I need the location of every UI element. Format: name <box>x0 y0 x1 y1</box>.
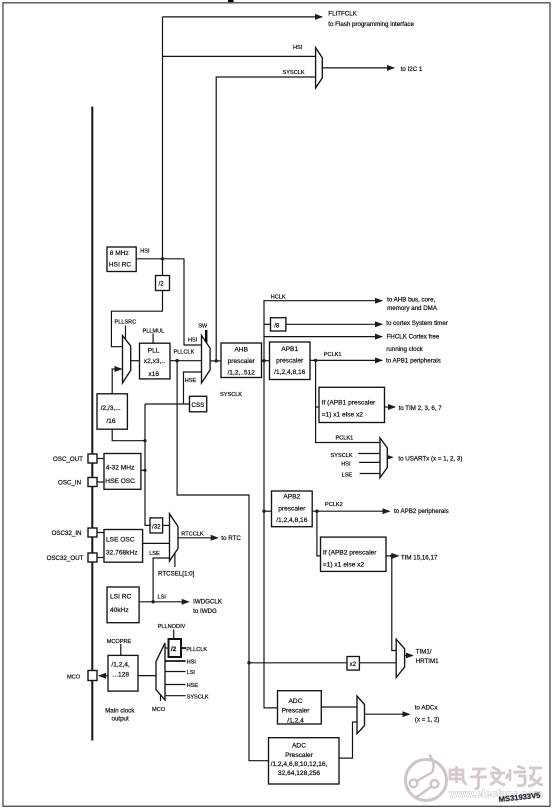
wire PLLCLK to SW mux <box>170 360 202 362</box>
mux MCO (mirrored) <box>156 643 165 700</box>
svg-text:APB2: APB2 <box>283 494 300 501</box>
svg-text:HSI RC: HSI RC <box>109 262 132 269</box>
svg-text:SYSCLK: SYSCLK <box>283 70 305 76</box>
prescaler ADC /1,2,4 box <box>278 691 322 724</box>
wire OSC_OUT pin to HSE OSC <box>97 458 104 460</box>
divider PREDIV /2,/3.../16 box <box>97 394 127 429</box>
svg-text:/16: /16 <box>106 418 115 425</box>
svg-text:8 MHz: 8 MHz <box>110 250 129 257</box>
multiplier x2 box <box>347 657 359 671</box>
svg-text:to I2C 1: to I2C 1 <box>401 66 423 73</box>
wire HCLK line <box>264 301 382 361</box>
logic If-APB2 x1/x2 box <box>321 537 387 571</box>
wire HSI to I2C mux <box>163 55 316 57</box>
svg-text:=1) x1 else x2: =1) x1 else x2 <box>323 562 365 569</box>
wire OSC_IN pin to HSE OSC <box>97 481 104 483</box>
wire /2 to MCO mux <box>165 647 169 649</box>
prescaler AHB box <box>221 343 262 378</box>
divider /32 box <box>150 518 163 533</box>
oscillator HSE OSC box <box>104 454 141 490</box>
svg-text:prescaler: prescaler <box>276 358 304 365</box>
svg-text:HSI: HSI <box>140 249 150 255</box>
wire I2C mux output to I2C1 <box>322 67 394 69</box>
wire AHB prescaler output <box>262 360 270 362</box>
wire MCO divider arrow to MCO pin <box>99 675 108 677</box>
wire OSC32_IN pin to LSE OSC <box>97 532 104 534</box>
node PCLK2 junction <box>315 510 318 513</box>
divider MCO /1,2,4...128 box <box>108 655 138 691</box>
wire RTCSEL select <box>174 551 176 567</box>
oscillator LSE OSC box <box>104 530 143 563</box>
svg-text:to USARTx (x = 1, 2, 3): to USARTx (x = 1, 2, 3) <box>398 456 462 463</box>
svg-text:Main clock: Main clock <box>105 707 135 714</box>
node LSI junction <box>151 600 154 603</box>
svg-text:PLLCLK: PLLCLK <box>174 349 195 355</box>
wire If-APB2 output to TIM15 <box>386 555 399 557</box>
divider /2 HSI box <box>156 276 170 291</box>
wire HSI RC output <box>136 259 201 345</box>
svg-text:to TIM 2, 3, 6, 7: to TIM 2, 3, 6, 7 <box>399 405 443 412</box>
node TIM15 branch junction <box>390 554 393 557</box>
wire HSE vertical <box>145 404 150 525</box>
svg-text:LSI: LSI <box>187 670 196 676</box>
wire HSI stub USART mux <box>359 461 380 463</box>
wire HCLK down bus <box>264 361 278 708</box>
wire HSE to PREDIV <box>112 429 145 441</box>
node APB2 tap junction <box>262 510 265 513</box>
wire TIM1 mux output <box>405 655 413 657</box>
mux I2C (HSI/SYSCLK) <box>316 48 323 88</box>
oscillator LSI RC box <box>107 587 139 623</box>
wire /32 to RTC mux <box>163 524 170 526</box>
top cropped text mark <box>228 0 234 2</box>
svg-text:FLITFCLK: FLITFCLK <box>328 10 357 17</box>
svg-text:SYSCLK: SYSCLK <box>220 392 242 398</box>
svg-text:HSI: HSI <box>341 462 351 468</box>
svg-text:HSI: HSI <box>293 45 303 51</box>
svg-text:to AHB bus, core,: to AHB bus, core, <box>387 296 435 303</box>
svg-text:HSE: HSE <box>187 683 199 689</box>
wire HSE to CSS <box>145 403 190 405</box>
svg-text:to cortex System timer: to cortex System timer <box>386 320 448 327</box>
oscillator HSI RC box <box>107 247 136 272</box>
node HSE-OSC junction <box>143 469 146 472</box>
mux PLLSRC <box>123 336 131 384</box>
wire ADC big prescaler output <box>338 722 357 758</box>
svg-text:TIM1/: TIM1/ <box>416 649 432 656</box>
wire /2 to PLLSRC mux <box>111 291 162 347</box>
wire HCLK to /8 <box>264 323 271 325</box>
svg-text:prescaler: prescaler <box>278 505 306 512</box>
wire HCLK to APB2 <box>264 510 272 512</box>
wire x2 to TIM1 mux <box>360 662 397 664</box>
divider /2 PLLNODIV box <box>169 639 182 657</box>
wire SW mux output SYSCLK <box>210 360 221 362</box>
wire HSI to /2 divider <box>162 259 164 276</box>
svg-text:/1,2,4,8,16: /1,2,4,8,16 <box>276 517 307 524</box>
svg-text:32,64,128,256: 32,64,128,256 <box>278 770 321 777</box>
wire main left bus <box>91 107 93 741</box>
wire PCLK1 down <box>316 360 380 442</box>
wire LSE stub USART mux <box>360 473 380 475</box>
pin OSC32_IN <box>88 528 97 537</box>
wire MCOPRE select <box>120 644 122 656</box>
wire SYSCLK stub MCO mux <box>165 695 186 697</box>
svg-text:/2,/3,...: /2,/3,... <box>101 405 121 412</box>
svg-text:/32: /32 <box>152 524 161 531</box>
watermark chinese characters (approximated strokes) <box>450 766 543 789</box>
svg-text:HSE: HSE <box>185 378 197 384</box>
svg-text:to APB1 peripherals: to APB1 peripherals <box>386 358 441 365</box>
svg-text:SYSCLK: SYSCLK <box>187 694 209 700</box>
wire PLLNODIV select <box>173 629 175 639</box>
wire LSI stub MCO mux <box>165 671 186 673</box>
svg-text:/8: /8 <box>274 322 280 329</box>
node SYSCLK junction <box>215 359 218 362</box>
mux SW system clock <box>202 335 211 383</box>
svg-text:RTCSEL[1:0]: RTCSEL[1:0] <box>158 570 195 577</box>
svg-text:HSI: HSI <box>188 337 198 343</box>
node HSI junction <box>161 257 164 260</box>
svg-text:x16: x16 <box>148 371 159 378</box>
svg-text:/1,2,4,8,16: /1,2,4,8,16 <box>274 369 305 376</box>
svg-text:PLL: PLL <box>148 347 160 354</box>
wire PCLK1 to If-APB1 box <box>316 406 319 408</box>
svg-text:MCO: MCO <box>152 707 166 713</box>
svg-text:HSE OSC: HSE OSC <box>105 478 135 485</box>
svg-text:4-32 MHz: 4-32 MHz <box>106 464 135 471</box>
wire HSE stub MCO mux <box>165 684 186 686</box>
svg-text:PLLMUL: PLLMUL <box>143 328 165 334</box>
wire SYSCLK stub USART mux <box>358 453 380 455</box>
node HCLK junction <box>262 359 265 362</box>
wire HSI vertical bus <box>162 17 164 259</box>
svg-text:=1) x1 else x2: =1) x1 else x2 <box>322 412 364 419</box>
svg-text:LSE OSC: LSE OSC <box>106 536 135 543</box>
svg-text:ADC: ADC <box>289 698 303 705</box>
pin OSC_OUT <box>88 454 97 463</box>
svg-text:/2: /2 <box>171 646 177 653</box>
svg-text:to IWDG: to IWDG <box>193 608 217 615</box>
svg-text:Prescaler: Prescaler <box>282 708 311 715</box>
svg-text:FHCLK Cortex free: FHCLK Cortex free <box>387 334 440 341</box>
svg-text:OSC_IN: OSC_IN <box>58 480 81 487</box>
svg-text:Prescaler: Prescaler <box>285 752 314 759</box>
svg-text:PLLCLK: PLLCLK <box>186 647 207 653</box>
wire SYSCLK vertical bus to I2C mux <box>216 77 315 361</box>
prescaler ADC big box <box>269 738 340 784</box>
svg-text:OSC32_OUT: OSC32_OUT <box>47 555 84 562</box>
wire SW select bar <box>205 330 207 343</box>
wire PLLSRC select <box>125 326 127 340</box>
mux ADC clock <box>357 696 365 734</box>
svg-text:HRTIM1: HRTIM1 <box>416 658 439 665</box>
wire HSE OSC output <box>141 469 145 471</box>
wire USART mux output <box>387 456 392 458</box>
svg-text:LSI: LSI <box>158 595 167 601</box>
wire OSC32_OUT pin to LSE OSC <box>97 557 104 559</box>
svg-text:CSS: CSS <box>192 402 205 409</box>
svg-text:PLLSRC: PLLSRC <box>115 320 137 326</box>
node HSE-PREDIV junction <box>143 439 146 442</box>
node PLLCLK junction <box>175 359 178 362</box>
css CSS box <box>190 396 207 412</box>
mux TIM1/HRTIM1 <box>396 639 404 677</box>
wire PLLMUL select <box>152 333 154 343</box>
svg-text:x2,x3,..: x2,x3,.. <box>144 358 165 365</box>
wire PLLCLK down bus <box>177 361 268 761</box>
svg-text:AHB: AHB <box>234 346 248 353</box>
wire PCLK2 down <box>317 511 321 556</box>
svg-text:/2: /2 <box>159 281 165 288</box>
svg-text:OSC32_IN: OSC32_IN <box>52 530 82 537</box>
svg-text:to RTC: to RTC <box>221 535 241 542</box>
svg-text:LSE: LSE <box>149 551 160 557</box>
svg-text:/1,2,4,: /1,2,4, <box>111 662 129 669</box>
svg-text:PLLNODIV: PLLNODIV <box>158 624 186 630</box>
svg-text:IWDGCLK: IWDGCLK <box>193 598 223 605</box>
svg-text:LSE: LSE <box>342 473 353 479</box>
pin OSC32_OUT <box>88 553 97 562</box>
wire /8 to cortex timer <box>286 323 382 325</box>
wire HSE to SW mux <box>184 372 202 404</box>
svg-text:MCOPRE: MCOPRE <box>107 639 132 645</box>
wire x2 line <box>249 662 347 664</box>
prescaler APB2 box <box>272 491 313 527</box>
wire HSI stub MCO mux <box>165 660 186 662</box>
wire LSI up to RTC mux <box>153 558 169 602</box>
svg-text:HCLK: HCLK <box>271 294 286 300</box>
svg-text:OSC_OUT: OSC_OUT <box>53 456 83 463</box>
svg-text:APB1: APB1 <box>281 346 298 353</box>
wire PREDIV to PLLSRC mux <box>112 369 121 394</box>
svg-text:/1,2,..512: /1,2,..512 <box>227 370 255 377</box>
svg-text:...128: ...128 <box>113 672 130 679</box>
svg-text:RTCCLK: RTCCLK <box>181 532 204 538</box>
wire PLLCLK stub /2 <box>181 647 186 649</box>
wire LSE to RTC mux <box>143 542 170 544</box>
node PCLK1 junction <box>314 359 317 362</box>
svg-text:prescaler: prescaler <box>228 358 256 365</box>
wire ADC mux output <box>365 713 410 715</box>
svg-text:to ADCx: to ADCx <box>415 705 439 712</box>
svg-text:/1,2,4,6,8,10,12,16,: /1,2,4,6,8,10,12,16, <box>271 761 328 768</box>
watermark elecfans logo circle <box>406 755 447 801</box>
svg-text:40kHz: 40kHz <box>110 607 129 614</box>
wire PCLK1 to APB1 peripherals <box>310 359 382 361</box>
wire If-APB2 to TIM1 mux <box>392 556 396 651</box>
wire PCLK2 to APB2 peripherals <box>312 510 390 512</box>
svg-text:output: output <box>112 716 129 723</box>
svg-text:running clock: running clock <box>386 346 423 353</box>
svg-text:PCLK1: PCLK1 <box>336 436 354 442</box>
divider /8 box <box>271 318 286 331</box>
pin MCO <box>88 671 97 681</box>
svg-text:memory and DMA: memory and DMA <box>387 305 438 312</box>
svg-text:ADC: ADC <box>292 743 306 750</box>
wire LSI to IWDG <box>139 601 189 603</box>
svg-text:HSI: HSI <box>187 660 197 666</box>
logic If-APB1 x1/x2 box <box>319 387 385 422</box>
svg-text:(x = 1, 2): (x = 1, 2) <box>415 716 440 723</box>
svg-text:If (APB2 prescaler: If (APB2 prescaler <box>323 549 377 556</box>
mux RTC RTCSEL <box>170 514 179 561</box>
svg-text:If (APB1 prescaler: If (APB1 prescaler <box>322 399 376 406</box>
wire If-APB1 output to TIM <box>385 406 396 408</box>
wire RTCCLK to RTC <box>178 537 218 539</box>
node x2 branch junction <box>247 661 250 664</box>
svg-text:SYSCLK: SYSCLK <box>331 453 353 459</box>
svg-text:TIM 15,16,17: TIM 15,16,17 <box>401 554 438 561</box>
svg-text:PCLK1: PCLK1 <box>324 352 342 358</box>
pin OSC_IN <box>88 478 97 487</box>
svg-text:LSI RC: LSI RC <box>110 594 131 601</box>
svg-text:32.768kHz: 32.768kHz <box>106 550 138 557</box>
svg-text:/1,2,4: /1,2,4 <box>287 717 304 724</box>
svg-text:to APB2 peripherals: to APB2 peripherals <box>394 508 449 515</box>
wire MCO select stub <box>160 692 162 702</box>
svg-text:x2: x2 <box>350 661 357 668</box>
svg-text:MCO: MCO <box>67 674 81 680</box>
wire ADC small prescaler output <box>322 706 358 708</box>
svg-text:PCLK2: PCLK2 <box>325 502 343 508</box>
wire MCO mux to divider <box>138 675 156 677</box>
mux USART clock <box>380 438 387 478</box>
svg-text:to Flash programming interface: to Flash programming interface <box>328 21 414 28</box>
pll PLL x2..x16 box <box>140 343 171 379</box>
wire FLITFCLK to Flash arrow <box>163 16 323 18</box>
prescaler APB1 box <box>270 342 311 380</box>
wire FHCLK <box>264 336 382 338</box>
svg-text:SW: SW <box>198 323 208 329</box>
wire PLLSRC mux to PLL <box>131 360 140 362</box>
